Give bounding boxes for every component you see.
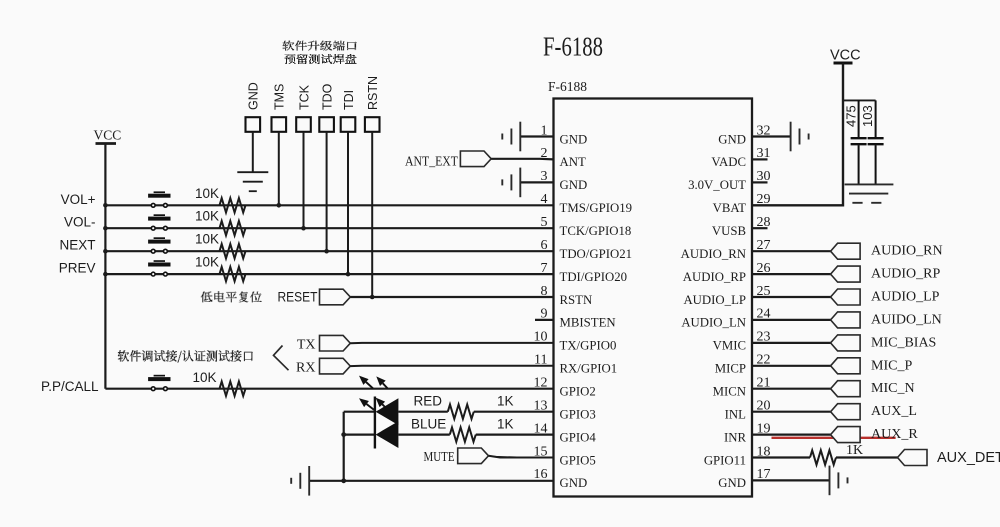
IC U1 right pin 22 MICP	[715, 353, 771, 376]
svg-text:AUDIO_RN: AUDIO_RN	[681, 247, 746, 261]
IC U1 left pin 16 GND	[534, 467, 588, 490]
svg-text:TCK: TCK	[297, 84, 311, 110]
IC U1 right pin 29 VBAT	[713, 192, 771, 215]
svg-text:VADC: VADC	[711, 155, 746, 169]
IC U1 left pin 15 GPIO5	[534, 444, 596, 467]
resistor R4 10K (PREV)	[195, 255, 246, 282]
angle mark <	[274, 346, 289, 371]
IC U1 left pin 6 TDO/GPIO21	[541, 238, 633, 261]
svg-text:AUDIO_LP: AUDIO_LP	[683, 293, 746, 307]
svg-text:475: 475	[844, 105, 859, 127]
LED D2 BLUE triangle	[376, 421, 399, 448]
svg-text:VBAT: VBAT	[713, 201, 747, 215]
svg-text:10K: 10K	[195, 232, 219, 247]
svg-text:MBISTEN: MBISTEN	[560, 316, 616, 330]
ground pin 3 (facing left)	[502, 168, 520, 198]
node junction TMS/row	[277, 203, 282, 208]
svg-text:MICN: MICN	[713, 385, 746, 399]
svg-text:INL: INL	[725, 408, 747, 422]
wire TMS pad down to row	[278, 132, 280, 206]
svg-text:GPIO2: GPIO2	[560, 385, 596, 399]
IC U1 right pin 20 INL	[725, 399, 771, 422]
svg-text:TX: TX	[297, 337, 316, 352]
switch button S4 (PREV)	[148, 260, 170, 276]
svg-text:PREV: PREV	[59, 261, 96, 276]
IC U1 left pin 3 GND	[541, 169, 588, 192]
svg-text:VMIC: VMIC	[713, 339, 746, 353]
svg-text:GND: GND	[560, 132, 588, 146]
node junction TCK/row	[301, 226, 306, 231]
svg-text:103: 103	[860, 105, 875, 127]
test pad TDO	[319, 83, 334, 131]
svg-text:GND: GND	[247, 82, 261, 110]
chinese label: 预留测试焊盘	[285, 54, 357, 64]
LED emission arrow a3	[359, 398, 374, 410]
IC U1 right pin 19 INR	[724, 421, 771, 444]
connector MIC_N	[831, 381, 861, 397]
IC U1 left pin 10 TX/GPIO0	[534, 330, 617, 353]
wire row VOL+ to pin 4	[105, 204, 553, 206]
resistor R5 10K (P.P/CALL)	[193, 370, 246, 396]
switch button S1 (VOL+)	[148, 191, 170, 207]
IC U1 left pin 11 RX/GPIO1	[534, 353, 617, 376]
wire row VOL- to pin 5	[105, 227, 553, 229]
wire TDI pad down to row	[347, 132, 349, 274]
IC U1 right pin 31 VADC	[711, 146, 770, 169]
test pad RSTN	[365, 76, 380, 132]
IC U1 right pin 18 GPIO11	[704, 444, 771, 467]
capacitor C2 103	[860, 100, 884, 183]
power symbol VCC (left)	[94, 128, 122, 144]
wire pin 23 to connector	[752, 342, 831, 344]
node junction bus/VOL-	[103, 226, 108, 231]
svg-text:GND: GND	[560, 476, 588, 490]
wire pin 27 to connector	[752, 250, 831, 252]
IC U1 right pin 30 3.0V_OUT	[688, 169, 770, 192]
LED emission arrow a4	[376, 398, 386, 408]
connector MIC_P	[831, 358, 861, 374]
svg-text:AUDIO_RP: AUDIO_RP	[871, 267, 940, 282]
svg-text:MIC_BIAS: MIC_BIAS	[871, 335, 936, 350]
node junction TDO/row	[324, 249, 329, 254]
svg-text:1K: 1K	[497, 394, 514, 409]
svg-text:10K: 10K	[195, 209, 219, 224]
LED D1 RED cathode bar	[374, 397, 376, 449]
svg-text:VUSB: VUSB	[712, 224, 746, 238]
LED emission arrow a2	[376, 376, 388, 388]
wire pin 18 to resistor	[752, 456, 810, 458]
svg-text:AUDIO_RP: AUDIO_RP	[683, 270, 746, 284]
svg-text:MIC_P: MIC_P	[871, 358, 912, 373]
node junction bus/NEXT	[103, 249, 108, 254]
IC U1 left pin 13 GPIO3	[534, 399, 596, 422]
wire MUTE to pin 15	[489, 456, 554, 458]
resistor R2 10K (VOL-)	[195, 209, 246, 236]
wire pin 21 to connector	[752, 388, 831, 390]
ground pin 17 (facing right)	[830, 466, 848, 496]
svg-text:GPIO3: GPIO3	[560, 408, 596, 422]
wire BLUE row	[344, 434, 375, 436]
test pad TCK	[296, 84, 311, 131]
wire RED row	[344, 411, 375, 413]
wire RED resistor to pin 13	[474, 411, 554, 413]
wire pin 3 to ground	[520, 181, 553, 183]
node junction TDI/row	[346, 272, 351, 277]
IC U1 left pin 9 MBISTEN	[535, 307, 616, 330]
resistor R7 1K (BLUE)	[450, 417, 514, 442]
ground (bottom left, facing left)	[291, 466, 309, 496]
svg-text:AUDIO_RN: AUDIO_RN	[871, 244, 943, 259]
resistor R8 1K (AUX_DET)	[810, 443, 863, 465]
chinese label: 低电平复位	[201, 292, 262, 303]
ground pin 32 (facing right)	[791, 122, 809, 152]
wire VCC bus vertical	[104, 144, 106, 389]
svg-text:VOL+: VOL+	[61, 192, 96, 207]
IC U1 left pin 1 GND	[541, 123, 588, 146]
svg-text:10K: 10K	[193, 370, 217, 385]
svg-text:GND: GND	[718, 132, 746, 146]
svg-text:AUX_R: AUX_R	[871, 427, 918, 442]
IC U1 right pin 24 AUDIO_LN	[681, 307, 770, 330]
connector ANT_EXT	[460, 151, 491, 167]
wire LED left bus	[343, 412, 345, 481]
IC U1 left pin 4 TMS/GPIO19	[541, 192, 633, 215]
wire pin 1 to ground	[520, 135, 553, 137]
resistor R3 10K (NEXT)	[195, 232, 246, 259]
svg-text:GND: GND	[560, 178, 588, 192]
switch button S5 (P.P/CALL)	[148, 375, 170, 391]
svg-text:VCC: VCC	[94, 128, 122, 143]
svg-text:RX: RX	[296, 360, 315, 375]
connector TX	[320, 335, 351, 351]
wire pin 25 to connector	[752, 296, 831, 298]
wire VCC down to VBAT	[752, 63, 843, 205]
IC U1 right pin 32 GND	[718, 123, 770, 146]
svg-text:BLUE: BLUE	[411, 417, 446, 432]
svg-text:AUIDO_LN: AUIDO_LN	[871, 312, 942, 327]
svg-text:AUDIO_LN: AUDIO_LN	[681, 316, 746, 330]
svg-text:GPIO4: GPIO4	[560, 430, 597, 444]
svg-text:ANT_EXT: ANT_EXT	[405, 154, 459, 169]
resistor R6 1K (RED)	[448, 394, 514, 419]
wire row PREV to pin 7	[105, 273, 553, 275]
resistor R1 10K (VOL+)	[195, 186, 246, 213]
wire bottom ground rail to pin 16	[309, 480, 553, 482]
IC U1 right pin 28 VUSB	[712, 215, 771, 238]
wire row NEXT to pin 6	[105, 250, 553, 252]
chinese label: 软件升级端口	[283, 41, 357, 51]
capacitor C1 475	[844, 100, 867, 183]
connector AUIDO_LN	[831, 312, 861, 328]
IC U1 right pin 26 AUDIO_RP	[683, 261, 771, 284]
svg-text:AUDIO_LP: AUDIO_LP	[871, 290, 940, 305]
svg-text:TX/GPIO0: TX/GPIO0	[560, 339, 617, 353]
ground under GND pad	[237, 172, 268, 191]
svg-text:F-6188: F-6188	[543, 32, 603, 62]
IC U1 right pin 27 AUDIO_RN	[681, 238, 771, 261]
svg-text:TMS/GPIO19: TMS/GPIO19	[560, 201, 633, 215]
wire pin 19 to connector	[752, 434, 831, 436]
switch button S3 (NEXT)	[148, 237, 170, 253]
svg-text:10K: 10K	[195, 186, 219, 201]
svg-text:INR: INR	[724, 430, 747, 444]
svg-text:TDI/GPIO20: TDI/GPIO20	[560, 270, 628, 284]
wire pin 32 to ground	[752, 135, 791, 137]
IC U1 left pin 5 TCK/GPIO18	[541, 215, 632, 238]
wire GND pad down	[252, 132, 254, 172]
node junction RSTN/row	[370, 295, 375, 300]
connector MIC_BIAS	[831, 335, 861, 351]
IC U1 right pin 21 MICN	[713, 376, 771, 399]
svg-text:RSTN: RSTN	[366, 76, 380, 110]
test pad TDI	[341, 90, 356, 132]
svg-text:MIC_N: MIC_N	[871, 381, 915, 396]
wire pin 26 to connector	[752, 273, 831, 275]
svg-text:1K: 1K	[846, 443, 863, 458]
connector AUX_DET	[898, 450, 928, 466]
connector AUDIO_RP	[831, 266, 861, 282]
svg-text:3.0V_OUT: 3.0V_OUT	[688, 178, 746, 192]
red highlight underline AUX_R	[772, 437, 896, 439]
svg-text:GPIO11: GPIO11	[704, 453, 746, 467]
wire pin 22 to connector	[752, 365, 831, 367]
svg-text:RSTN: RSTN	[560, 293, 593, 307]
wire capacitor branch top	[843, 99, 876, 101]
wire TX to pin 10	[350, 342, 553, 344]
svg-text:F-6188: F-6188	[548, 79, 587, 94]
node junction bus/bottom	[341, 478, 346, 483]
wire RED LED to resistor	[398, 411, 447, 413]
wire pin 17 to ground	[752, 479, 830, 481]
svg-text:GPIO5: GPIO5	[560, 453, 596, 467]
node junction bus/VOL+	[103, 203, 108, 208]
test pad TMS	[272, 84, 287, 132]
wire pin 24 to connector	[752, 319, 831, 321]
svg-text:10K: 10K	[195, 255, 219, 270]
svg-text:AUX_L: AUX_L	[871, 404, 917, 419]
svg-text:TDI: TDI	[342, 90, 356, 110]
svg-text:VOL-: VOL-	[64, 215, 96, 230]
svg-text:RED: RED	[414, 394, 443, 409]
svg-text:MUTE: MUTE	[424, 449, 455, 464]
svg-text:P.P/CALL: P.P/CALL	[41, 379, 99, 394]
wire BLUE LED to resistor	[398, 434, 449, 436]
connector AUDIO_RN	[831, 243, 861, 259]
switch button S2 (VOL-)	[148, 214, 170, 230]
connector AUX_R	[831, 427, 861, 443]
svg-text:GND: GND	[718, 476, 746, 490]
op IC U1 F-6188 body	[548, 79, 752, 497]
svg-text:VCC: VCC	[830, 48, 861, 64]
IC U1 right pin 17 GND	[718, 467, 770, 490]
wire row P.P/CALL to pin 12	[105, 388, 553, 390]
test pad GND	[246, 82, 261, 132]
LED D1 RED triangle	[376, 398, 399, 425]
wire resistor to AUX_DET connector	[836, 456, 898, 458]
svg-text:TDO/GPIO21: TDO/GPIO21	[560, 247, 633, 261]
svg-text:MICP: MICP	[715, 362, 746, 376]
wire RX to pin 11	[350, 365, 553, 367]
IC U1 left pin 14 GPIO4	[534, 421, 597, 444]
connector AUDIO_LP	[831, 289, 861, 305]
svg-text:TDO: TDO	[320, 83, 334, 110]
svg-text:TCK/GPIO18: TCK/GPIO18	[560, 224, 632, 238]
wire TDO pad down to row	[326, 132, 328, 251]
wire pin 20 to connector	[752, 411, 831, 413]
wire BLUE resistor to pin 14	[476, 434, 554, 436]
ground under capacitors	[845, 184, 894, 202]
wire RESET to pin 8	[350, 296, 553, 298]
svg-text:AUX_DET: AUX_DET	[937, 450, 1000, 466]
svg-text:RESET: RESET	[278, 290, 318, 305]
IC U1 left pin 7 TDI/GPIO20	[541, 261, 628, 284]
IC U1 left pin 12 GPIO2	[534, 376, 596, 399]
connector RESET	[320, 289, 351, 305]
svg-text:ANT: ANT	[560, 155, 586, 169]
connector MUTE	[458, 448, 489, 464]
wire TCK pad down to row	[303, 132, 305, 228]
IC U1 left pin 2 ANT	[541, 146, 586, 169]
IC U1 right pin 23 VMIC	[713, 330, 771, 353]
ground pin 1 (facing left)	[502, 122, 520, 152]
node junction bus/PREV	[103, 272, 108, 277]
svg-text:TMS: TMS	[273, 84, 287, 110]
svg-text:RX/GPIO1: RX/GPIO1	[560, 362, 618, 376]
svg-text:1K: 1K	[497, 417, 514, 432]
power symbol VCC (right)	[830, 48, 861, 64]
chinese label: 软件调试接/认证测试接口	[118, 350, 253, 362]
wire ANT_EXT to pin 2	[491, 158, 553, 161]
connector RX	[320, 358, 351, 374]
IC U1 left pin 8 RSTN	[541, 284, 593, 307]
wire RSTN pad down to row	[371, 132, 373, 297]
IC U1 right pin 25 AUDIO_LP	[683, 284, 770, 307]
node junction bus/BLUE	[341, 432, 346, 437]
connector AUX_L	[831, 404, 861, 420]
svg-text:NEXT: NEXT	[59, 238, 95, 253]
LED emission arrow a1	[359, 376, 373, 389]
